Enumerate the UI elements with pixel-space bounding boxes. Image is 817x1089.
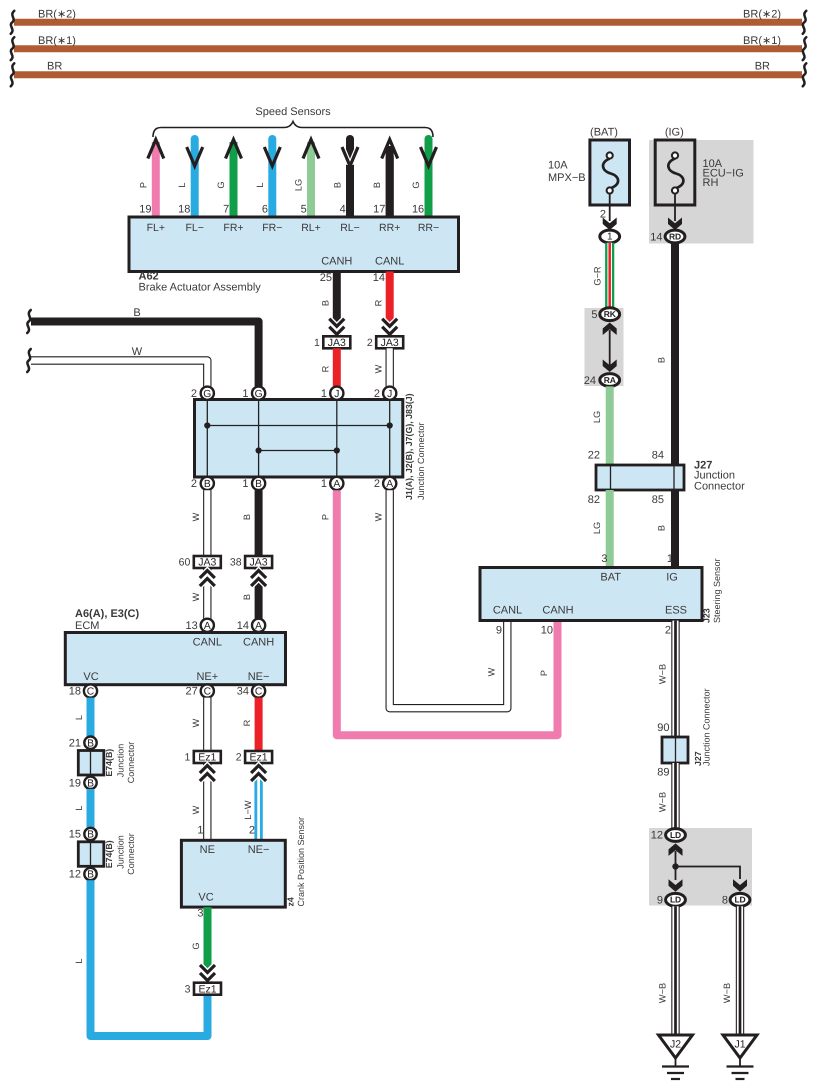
svg-text:8: 8 [722,895,728,907]
svg-text:(IG): (IG) [665,126,684,138]
svg-text:1: 1 [607,231,613,242]
svg-text:5: 5 [301,204,307,216]
svg-text:84: 84 [652,450,664,462]
svg-text:BR: BR [755,61,770,73]
svg-text:14: 14 [650,231,662,243]
svg-text:JA3: JA3 [328,337,346,349]
svg-text:13: 13 [186,620,198,632]
svg-text:LD: LD [670,895,681,905]
svg-text:LG: LG [592,411,602,423]
svg-text:38: 38 [230,557,242,569]
svg-text:RK: RK [604,309,617,319]
svg-text:14: 14 [237,620,249,632]
svg-text:2: 2 [367,337,373,349]
svg-text:B: B [87,830,94,841]
svg-text:18: 18 [178,204,190,216]
svg-text:W−B: W−B [658,983,668,1003]
svg-text:CANL: CANL [193,637,222,649]
svg-text:J2: J2 [670,1039,681,1051]
svg-text:2: 2 [249,825,255,837]
svg-text:10A: 10A [548,160,568,172]
svg-text:C: C [87,687,95,698]
svg-text:1: 1 [667,553,673,565]
svg-text:A: A [255,621,262,632]
svg-text:1: 1 [184,752,190,764]
svg-text:W: W [191,718,201,727]
svg-text:L−W: L−W [243,800,253,819]
svg-text:B: B [242,594,252,600]
svg-text:L: L [255,182,265,187]
svg-text:25: 25 [320,272,332,284]
svg-text:C: C [255,687,263,698]
svg-text:3: 3 [185,983,191,995]
svg-text:W: W [487,667,497,676]
svg-text:RR+: RR+ [379,222,400,234]
svg-text:2: 2 [191,478,197,490]
svg-text:B: B [657,357,667,363]
svg-text:19: 19 [69,777,81,789]
svg-text:2: 2 [191,388,197,400]
svg-text:17: 17 [373,204,385,216]
svg-text:L: L [74,958,84,963]
svg-text:JA3: JA3 [381,337,399,349]
svg-text:90: 90 [657,722,669,734]
svg-text:L: L [74,715,84,720]
svg-text:Junction: Junction [116,744,126,778]
svg-text:B: B [204,479,211,490]
svg-text:FR+: FR+ [223,222,243,234]
svg-text:16: 16 [412,204,424,216]
svg-text:W: W [374,364,384,373]
svg-text:B: B [242,514,252,520]
svg-text:85: 85 [652,494,664,506]
svg-text:G: G [191,942,201,949]
svg-text:2: 2 [374,388,380,400]
svg-text:CANL: CANL [375,255,404,267]
svg-text:A62: A62 [139,270,159,282]
svg-text:B: B [333,182,343,188]
svg-text:2: 2 [374,478,380,490]
svg-text:1: 1 [197,825,203,837]
svg-text:1: 1 [242,388,248,400]
svg-text:VC: VC [198,892,213,904]
svg-text:27: 27 [186,686,198,698]
svg-text:L: L [177,182,187,187]
svg-text:2: 2 [236,752,242,764]
svg-text:Junction: Junction [116,835,126,869]
svg-text:FL+: FL+ [147,222,165,234]
svg-text:G: G [411,181,421,188]
svg-text:FR−: FR− [262,222,282,234]
svg-text:LG: LG [592,522,602,534]
svg-text:RH: RH [703,177,719,189]
svg-text:LD: LD [670,830,681,840]
svg-text:IG: IG [666,572,678,584]
svg-text:B: B [321,300,331,306]
svg-text:Crank Position Sensor: Crank Position Sensor [296,817,306,907]
svg-text:B: B [372,182,382,188]
svg-text:W: W [374,512,384,521]
svg-text:(BAT): (BAT) [590,126,618,138]
svg-text:P: P [138,182,148,188]
svg-text:1: 1 [242,478,248,490]
svg-text:Junction Connector: Junction Connector [702,688,712,766]
svg-text:Connector: Connector [694,481,745,493]
svg-text:NE: NE [200,844,215,856]
svg-text:W−B: W−B [658,664,668,684]
svg-text:z4: z4 [286,897,296,906]
svg-text:A: A [386,479,393,490]
svg-text:Steering Sensor: Steering Sensor [712,558,722,623]
svg-text:12: 12 [651,830,663,842]
svg-text:E74(B): E74(B) [104,840,114,868]
svg-text:B: B [87,870,94,881]
svg-text:NE−: NE− [248,844,270,856]
svg-text:Brake Actuator Assembly: Brake Actuator Assembly [139,282,262,294]
svg-text:J23: J23 [702,608,712,623]
svg-text:BR(∗2): BR(∗2) [38,9,76,21]
svg-text:W: W [191,512,201,521]
svg-text:R: R [242,719,252,726]
svg-text:B: B [87,738,94,749]
svg-text:J1: J1 [734,1039,745,1051]
svg-text:19: 19 [139,204,151,216]
svg-text:Speed Sensors: Speed Sensors [255,106,331,118]
svg-text:9: 9 [657,895,663,907]
svg-text:A: A [333,479,340,490]
svg-text:Connector: Connector [126,833,136,875]
svg-text:RD: RD [669,231,681,241]
svg-text:ECM: ECM [75,620,99,632]
svg-text:NE−: NE− [248,671,270,683]
svg-text:10: 10 [541,624,553,636]
svg-text:LG: LG [294,179,304,191]
svg-text:2: 2 [665,624,671,636]
svg-text:P: P [539,670,549,676]
svg-text:12: 12 [69,869,81,881]
svg-text:NE+: NE+ [196,671,218,683]
svg-text:A6(A), E3(C): A6(A), E3(C) [75,608,140,620]
svg-text:W: W [191,805,201,814]
svg-text:BR(∗2): BR(∗2) [743,9,781,21]
svg-text:CANL: CANL [493,605,522,617]
svg-text:22: 22 [588,450,600,462]
svg-text:CANH: CANH [542,605,573,617]
svg-text:J: J [334,389,339,400]
svg-text:CANH: CANH [243,637,274,649]
svg-text:G−R: G−R [593,266,603,286]
svg-text:21: 21 [69,737,81,749]
svg-text:5: 5 [591,309,597,321]
svg-text:Junction Connector: Junction Connector [416,422,426,500]
svg-text:W: W [191,592,201,601]
svg-text:G: G [255,389,263,400]
svg-text:6: 6 [262,204,268,216]
svg-text:R: R [321,365,331,372]
svg-text:RR−: RR− [418,222,439,234]
svg-text:W−B: W−B [722,983,732,1003]
svg-text:VC: VC [83,671,98,683]
svg-text:BR(∗1): BR(∗1) [743,35,781,47]
svg-text:Connector: Connector [126,742,136,784]
svg-text:Ez1: Ez1 [198,983,216,995]
svg-text:L: L [74,805,84,810]
svg-text:W−B: W−B [658,792,668,812]
svg-text:B: B [87,779,94,790]
svg-text:BR(∗1): BR(∗1) [38,35,76,47]
svg-text:RA: RA [604,375,616,385]
svg-text:FL−: FL− [186,222,204,234]
svg-text:3: 3 [601,553,607,565]
svg-text:BR: BR [47,61,62,73]
svg-text:RL−: RL− [340,222,360,234]
svg-text:18: 18 [69,686,81,698]
svg-text:1: 1 [321,478,327,490]
svg-text:15: 15 [69,829,81,841]
svg-text:RL+: RL+ [301,222,321,234]
svg-text:CANH: CANH [321,255,352,267]
svg-text:B: B [133,307,140,319]
svg-text:J: J [387,389,392,400]
svg-text:4: 4 [340,204,346,216]
svg-text:E74(B): E74(B) [104,749,114,777]
svg-text:34: 34 [237,686,249,698]
svg-text:BAT: BAT [600,572,621,584]
svg-text:G: G [216,181,226,188]
svg-text:A: A [204,621,211,632]
svg-text:B: B [255,479,262,490]
svg-text:J1(A), J2(B), J7(G), J83(J): J1(A), J2(B), J7(G), J83(J) [404,393,414,500]
svg-text:14: 14 [373,272,385,284]
svg-text:B: B [657,525,667,531]
svg-text:3: 3 [197,907,203,919]
svg-text:ESS: ESS [665,605,687,617]
svg-text:7: 7 [223,204,229,216]
svg-text:W: W [132,346,143,358]
svg-text:R: R [374,299,384,306]
svg-text:82: 82 [588,494,600,506]
svg-text:24: 24 [584,375,596,387]
svg-text:60: 60 [179,557,191,569]
svg-text:G: G [203,389,211,400]
svg-text:89: 89 [657,766,669,778]
svg-text:1: 1 [314,337,320,349]
svg-text:1: 1 [321,388,327,400]
svg-text:P: P [321,514,331,520]
svg-text:C: C [204,687,212,698]
svg-text:9: 9 [496,624,502,636]
svg-text:MPX−B: MPX−B [548,172,586,184]
svg-text:LD: LD [735,895,746,905]
